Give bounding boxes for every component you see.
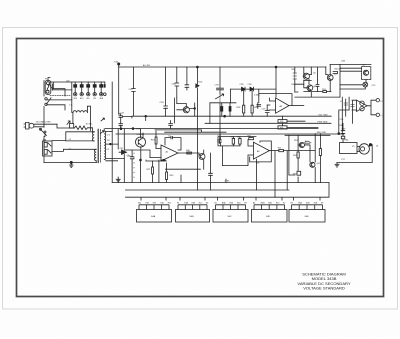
svg-text:A4: A4 bbox=[253, 202, 255, 205]
svg-text:R9: R9 bbox=[291, 203, 293, 205]
node TP1 bbox=[118, 63, 120, 65]
resistor network box S3C bbox=[213, 210, 248, 223]
svg-text:R36: R36 bbox=[231, 137, 234, 139]
resistor R18 bbox=[155, 137, 157, 144]
wire S3C ticks bbox=[216, 197, 246, 209]
transistor Q10 bbox=[360, 101, 364, 105]
svg-text:MJE340: MJE340 bbox=[137, 134, 145, 136]
svg-text:R35: R35 bbox=[248, 136, 251, 138]
node bbox=[275, 66, 277, 68]
svg-text:R9: R9 bbox=[321, 203, 323, 205]
wire top bus bbox=[119, 66, 326, 68]
wire right top rows bbox=[330, 64, 371, 97]
wire vertical pair bbox=[175, 98, 177, 123]
capacitor C11 bbox=[169, 121, 173, 129]
wire bbox=[283, 116, 319, 127]
resistor R64 bbox=[341, 136, 345, 139]
wire S3B ticks bbox=[178, 197, 207, 209]
wire mid line bbox=[105, 128, 318, 130]
svg-text:115 LINE CORD: 115 LINE CORD bbox=[36, 121, 52, 123]
svg-text:S4E: S4E bbox=[305, 216, 310, 218]
svg-text:R42: R42 bbox=[278, 147, 281, 149]
capacitor C8A bbox=[221, 107, 223, 112]
switch S1A lever bbox=[40, 129, 47, 137]
wire bbox=[337, 145, 372, 163]
svg-text:S4A: S4A bbox=[151, 215, 156, 218]
svg-text:7.5A: 7.5A bbox=[114, 61, 119, 64]
wire lower right cluster bbox=[285, 134, 330, 183]
svg-text:S4C: S4C bbox=[228, 216, 233, 218]
resistor R1 bbox=[75, 126, 95, 132]
diode CR5 bbox=[231, 87, 245, 91]
switch S1B bbox=[45, 98, 47, 100]
svg-text:115 VAC: 115 VAC bbox=[86, 123, 94, 126]
resistor R42 bbox=[279, 150, 284, 152]
transistor Q3 bbox=[199, 154, 205, 160]
resistor R56 bbox=[297, 171, 301, 175]
svg-text:R40: R40 bbox=[161, 203, 164, 205]
wire long bottom bus bbox=[112, 182, 329, 184]
wire bbox=[339, 110, 349, 134]
pot R34 bbox=[278, 126, 287, 129]
svg-text:R41: R41 bbox=[168, 203, 171, 205]
wire OUT GRD line bbox=[132, 116, 331, 118]
svg-text:4.5: 4.5 bbox=[69, 139, 72, 141]
mechanical link dotted bbox=[133, 153, 135, 181]
svg-text:R38: R38 bbox=[146, 203, 149, 205]
terminal E4 bbox=[94, 82, 96, 93]
switch S1A contact bbox=[44, 131, 46, 133]
capacitor C7B bbox=[217, 88, 224, 90]
capacitor C12 bbox=[257, 89, 261, 108]
ground bbox=[116, 177, 120, 182]
transistor Q9 bbox=[363, 70, 368, 75]
resistor R44 bbox=[293, 73, 297, 79]
wire A2 output bbox=[269, 150, 278, 152]
connector P1 line plug bbox=[24, 123, 29, 130]
svg-text:R33: R33 bbox=[280, 121, 283, 123]
svg-text:(+): (+) bbox=[381, 100, 384, 102]
wire bbox=[136, 128, 141, 130]
node bbox=[120, 128, 122, 130]
wire vertical bbox=[181, 153, 211, 190]
resistor R30 bbox=[166, 172, 168, 180]
diode CR3 bbox=[164, 106, 168, 108]
wire right column caps bbox=[342, 97, 352, 134]
tube V1 bbox=[359, 144, 369, 154]
diode CR4 bbox=[196, 84, 199, 88]
capacitor C8B bbox=[229, 107, 231, 112]
svg-text:C2B: C2B bbox=[341, 61, 346, 63]
wire vertical C10 bbox=[133, 67, 135, 116]
resistor R49 bbox=[333, 72, 338, 74]
terminal E3 bbox=[87, 82, 89, 93]
fuse F1 / breaker CB1 bbox=[45, 81, 51, 95]
inductor L1 bbox=[72, 82, 73, 124]
wire bbox=[117, 179, 119, 183]
resistor network box S3B bbox=[176, 210, 210, 223]
svg-text:R31: R31 bbox=[138, 203, 141, 205]
ground bbox=[335, 163, 339, 168]
wire bbox=[159, 160, 201, 183]
transformer T1 primary winding 2 bbox=[94, 149, 96, 162]
switch wafer labels bbox=[138, 202, 323, 218]
wire A1 inputs bbox=[150, 149, 161, 158]
wire bottom primary bbox=[44, 161, 97, 163]
resistor R53 bbox=[323, 91, 327, 93]
resistor R21 bbox=[152, 167, 154, 174]
node bbox=[140, 159, 142, 161]
wire bbox=[326, 64, 330, 91]
wire mid bottom bus bbox=[126, 189, 290, 191]
wire A1 output bbox=[178, 153, 199, 156]
transformer T1 primary winding bbox=[92, 132, 94, 141]
capacitor C3A bbox=[175, 83, 179, 86]
svg-text:R10: R10 bbox=[276, 203, 279, 205]
svg-text:A1: A1 bbox=[215, 202, 217, 205]
wire A3 feedback bbox=[259, 94, 292, 106]
border frame bbox=[17, 39, 384, 297]
resistor network box S3A bbox=[137, 197, 326, 222]
wire rectifier verticals bbox=[111, 82, 113, 183]
svg-text:OUT GRD: OUT GRD bbox=[318, 114, 328, 116]
node bbox=[163, 159, 165, 161]
wire vertical bbox=[275, 67, 277, 97]
terminal J3 bbox=[369, 144, 371, 146]
wire S2 to T1 loop A bbox=[52, 132, 94, 141]
wire A3 output bbox=[289, 105, 304, 107]
capacitor C4B bbox=[119, 124, 123, 129]
svg-text:R34: R34 bbox=[280, 127, 283, 129]
wire S3E ticks bbox=[292, 197, 323, 209]
diode CR1 bbox=[119, 150, 127, 154]
capacitor C5 bbox=[130, 150, 134, 183]
svg-text:R37: R37 bbox=[237, 137, 240, 139]
svg-text:AC 40V: AC 40V bbox=[143, 64, 151, 67]
svg-text:C7B+: C7B+ bbox=[127, 156, 132, 158]
wire breaker lever bbox=[48, 78, 53, 91]
ground bbox=[70, 161, 72, 163]
capacitor C9 bbox=[218, 137, 222, 146]
connector P1 body bbox=[29, 123, 34, 128]
terminal strip TB bus bbox=[50, 81, 105, 83]
wire A3 inputs bbox=[267, 98, 275, 110]
svg-text:REF GRD: REF GRD bbox=[317, 132, 327, 134]
node bbox=[338, 133, 340, 135]
wire bbox=[124, 150, 150, 158]
terminal E1 bbox=[74, 82, 76, 93]
svg-text:R38: R38 bbox=[256, 163, 259, 165]
wire bbox=[289, 145, 310, 183]
title block text bbox=[297, 272, 350, 291]
node bbox=[197, 66, 199, 68]
svg-text:+C47: +C47 bbox=[119, 113, 125, 115]
svg-text:230: 230 bbox=[107, 140, 110, 142]
label TB2 bbox=[225, 179, 227, 183]
svg-text:CR1: CR1 bbox=[120, 148, 124, 150]
wire L1 to T1 bbox=[87, 106, 90, 130]
capacitor C15 bbox=[351, 105, 355, 107]
wire bbox=[257, 151, 316, 198]
wire bbox=[304, 79, 309, 92]
op-amp A4 output stage bbox=[357, 100, 368, 111]
transistor Q2 bbox=[183, 107, 189, 113]
svg-text:28B2: 28B2 bbox=[261, 203, 265, 205]
wire cluster extras bbox=[295, 80, 319, 92]
resistor network box S3D bbox=[252, 210, 288, 223]
svg-text:R3: R3 bbox=[245, 203, 247, 205]
resistor R40 bbox=[187, 152, 192, 154]
resistor R52 bbox=[305, 142, 312, 144]
transistor Q11 bbox=[310, 162, 315, 167]
inductor L1 coil bbox=[73, 111, 87, 113]
capacitor C10 bbox=[132, 89, 136, 92]
photocell dashed box bbox=[362, 67, 371, 80]
svg-text:YEL: YEL bbox=[93, 98, 96, 100]
op-amp A2 bbox=[253, 142, 269, 159]
wire feedback A2 bbox=[250, 141, 272, 162]
wire vertical bbox=[176, 67, 178, 98]
terminal J2 bbox=[376, 113, 379, 116]
node bbox=[145, 115, 147, 117]
switch S1A toggle bbox=[40, 128, 42, 130]
wire left vertical bbox=[43, 81, 45, 163]
svg-text:6.3: 6.3 bbox=[107, 149, 110, 151]
transformer T1 core bbox=[97, 129, 99, 162]
diode CR6 bbox=[245, 87, 276, 91]
lamp DS1 bbox=[363, 82, 368, 87]
svg-text:S4D: S4D bbox=[266, 216, 271, 218]
transistor Q6 bbox=[307, 85, 313, 91]
resistor R35 bbox=[249, 138, 254, 140]
wire right verticals bbox=[295, 67, 326, 92]
switch S1 mechanical link bbox=[50, 95, 70, 97]
chassis arrow bbox=[67, 121, 70, 124]
capacitor C4A bbox=[119, 114, 123, 124]
terminal J1 bbox=[376, 99, 379, 102]
svg-text:VOLTAGE STANDARD: VOLTAGE STANDARD bbox=[303, 285, 345, 290]
transistor Q5 bbox=[303, 73, 309, 79]
switch S2 block bbox=[43, 141, 52, 156]
wire A2 inputs bbox=[223, 140, 254, 166]
wire bbox=[57, 124, 75, 128]
wire line cord bbox=[34, 124, 57, 127]
svg-text:S4B: S4B bbox=[190, 216, 195, 218]
capacitor C6 feedback bbox=[165, 136, 181, 150]
transistor Q8 bbox=[299, 142, 304, 147]
svg-text:C3A: C3A bbox=[172, 83, 177, 86]
op-amp A1 bbox=[161, 145, 178, 161]
terminal strip labels bbox=[73, 98, 104, 100]
wire bbox=[119, 114, 132, 117]
transformer T1 secondary windings bbox=[104, 131, 106, 160]
svg-text:(−): (−) bbox=[381, 115, 384, 117]
wire vertical bbox=[196, 67, 198, 190]
transistor Q7 bbox=[327, 75, 333, 81]
pot R33 bbox=[278, 120, 287, 123]
terminal E2 bbox=[81, 82, 83, 93]
wire bbox=[340, 80, 366, 89]
svg-text:R6: R6 bbox=[206, 203, 208, 205]
wire bbox=[146, 160, 167, 161]
resistor R28 bbox=[243, 105, 245, 113]
wire top row A2 bbox=[218, 137, 256, 166]
op-amp A3 bbox=[276, 98, 289, 113]
wire step bbox=[155, 130, 226, 132]
capacitor C13 bbox=[265, 105, 269, 116]
svg-text:R39: R39 bbox=[153, 203, 156, 205]
wire bbox=[331, 116, 344, 133]
resistor R37 bbox=[239, 138, 241, 144]
svg-text:4.5: 4.5 bbox=[69, 149, 72, 151]
wire to transformer primary bbox=[47, 82, 72, 110]
svg-text:R1: R1 bbox=[177, 203, 179, 205]
wire bbox=[145, 116, 147, 120]
node secondary tap bbox=[110, 143, 112, 145]
wire vertical C7B bbox=[219, 67, 221, 136]
terminal E5 bbox=[100, 82, 102, 93]
capacitor C2 bbox=[185, 85, 189, 88]
wire vertical bbox=[165, 67, 167, 106]
svg-text:R50 49: R50 49 bbox=[335, 69, 343, 71]
wire PWR GRD line bbox=[205, 122, 331, 124]
svg-text:C7B: C7B bbox=[215, 85, 220, 87]
node bbox=[132, 128, 134, 130]
resistor R29 bbox=[251, 105, 253, 113]
resistor R58 bbox=[319, 149, 321, 156]
svg-text:17.5: 17.5 bbox=[107, 135, 111, 137]
capacitor C14 bbox=[344, 103, 348, 105]
resistor network box S3E bbox=[289, 210, 325, 223]
wire S3A ticks bbox=[139, 197, 169, 209]
wire S3D ticks bbox=[254, 197, 285, 209]
transistor Q1 bbox=[136, 137, 146, 147]
capacitor C16 bbox=[209, 173, 213, 175]
node bbox=[224, 115, 226, 117]
wire Q1 leads bbox=[141, 129, 144, 183]
wire outputs bbox=[352, 100, 376, 115]
wire S2 to T1 loop B bbox=[52, 149, 96, 151]
wire Q2 leads bbox=[177, 103, 195, 116]
wire REF GRD line bbox=[116, 133, 344, 135]
potentiometer R24 wiper arrow bbox=[216, 94, 224, 99]
wire loop bbox=[210, 89, 236, 123]
svg-text:R2: R2 bbox=[283, 203, 285, 205]
wire bbox=[165, 108, 167, 116]
wire bbox=[118, 64, 120, 114]
terminal E6 bbox=[104, 82, 106, 85]
node bbox=[194, 108, 196, 110]
resistor R54 bbox=[297, 152, 299, 158]
wire switch bus bbox=[126, 183, 330, 198]
potentiometer R24 link bbox=[219, 94, 221, 103]
wire tap arrows bbox=[101, 118, 105, 134]
resistor R36 bbox=[232, 138, 234, 144]
terminal block TB1 bbox=[70, 124, 74, 129]
wire row bbox=[295, 92, 340, 98]
svg-text:PWR GRD: PWR GRD bbox=[317, 122, 328, 124]
svg-text:12 BK: 12 BK bbox=[225, 181, 231, 183]
wire vertical bbox=[186, 67, 188, 90]
tube V1 socket loop bbox=[340, 143, 358, 154]
